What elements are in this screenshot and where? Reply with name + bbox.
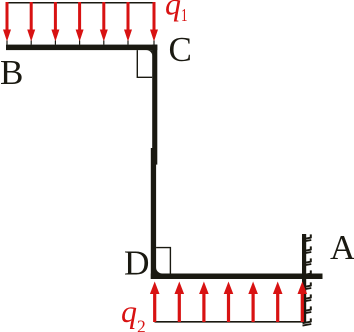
- load q1 arrow 4: [76, 2, 84, 45]
- svg-text:A: A: [330, 228, 354, 267]
- load q2 arrow 3: [199, 282, 209, 323]
- support hatch tick 5: [303, 282, 312, 289]
- load q1 arrow 2: [27, 2, 35, 45]
- load q2 arrow 2: [175, 282, 185, 323]
- column C-D upper segment: [152, 45, 157, 165]
- column C-D lower segment: [151, 148, 156, 279]
- load q1 arrow 7: [150, 2, 158, 45]
- load q2 arrow 4: [224, 282, 234, 323]
- load q2 arrow 6: [273, 282, 283, 323]
- load q1 arrow 6: [124, 2, 132, 45]
- svg-text:C: C: [169, 30, 192, 69]
- svg-text:q1: q1: [165, 0, 188, 25]
- right-angle marker at D: [156, 248, 170, 274]
- load q1 tail line: [7, 2, 155, 4]
- support hatch tick 6: [303, 294, 312, 301]
- load q2 arrow 1: [150, 282, 160, 323]
- beam D-A: [151, 274, 323, 280]
- right-angle marker at C: [137, 50, 152, 77]
- load q1 arrow 5: [100, 2, 108, 45]
- svg-text:q2: q2: [121, 293, 146, 332]
- support hatch tick 2: [303, 246, 312, 253]
- svg-text:B: B: [0, 53, 23, 92]
- support hatch tick 7: [303, 306, 312, 313]
- support hatch tick 1: [303, 234, 312, 241]
- load q2 arrow 5: [248, 282, 258, 323]
- beam B-C: [6, 45, 157, 51]
- corner C fillet: [146, 50, 152, 56]
- support hatch tick 4: [303, 270, 312, 277]
- corner D fillet: [156, 267, 162, 273]
- load q1 arrow 1: [3, 2, 11, 45]
- load q2 arrow 7: [298, 282, 308, 323]
- load q2 tail line: [155, 321, 307, 323]
- support hatch tick 3: [303, 258, 312, 265]
- support hatch tick 8: [303, 318, 312, 325]
- load q1 arrow 3: [51, 2, 59, 45]
- svg-text:D: D: [124, 244, 150, 283]
- fixed support wall line at A: [302, 234, 306, 322]
